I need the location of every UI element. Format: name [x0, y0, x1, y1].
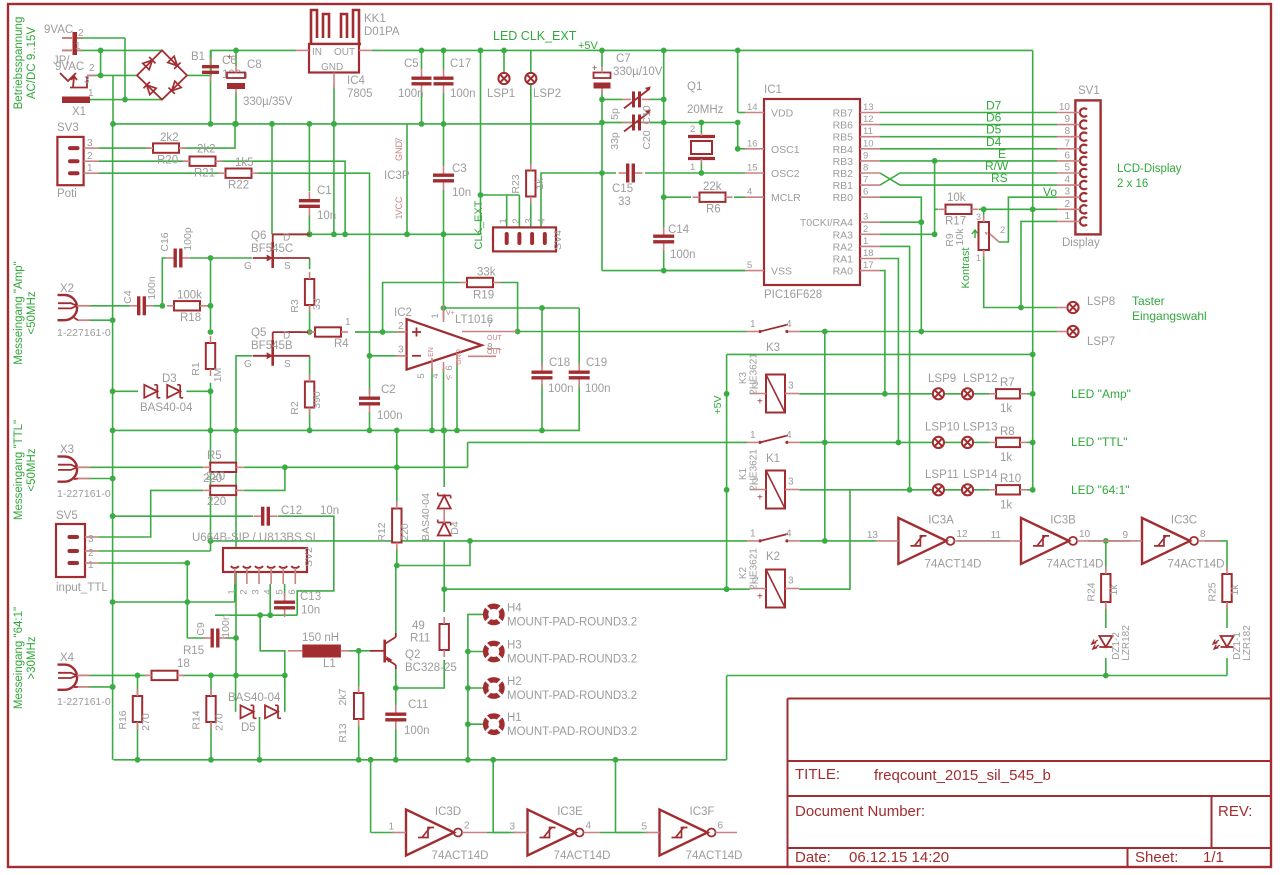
- svg-text:RB6: RB6: [833, 120, 854, 132]
- svg-text:LED CLK_EXT: LED CLK_EXT: [493, 29, 577, 43]
- svg-text:Messeingang "Amp": Messeingang "Amp": [13, 261, 25, 364]
- capacitor C9: [203, 629, 227, 648]
- svg-text:1/1: 1/1: [1203, 849, 1224, 866]
- wire vss row: [602, 270, 745, 272]
- svg-text:14: 14: [747, 102, 758, 113]
- svg-text:B1: B1: [191, 51, 205, 63]
- svg-text:4: 4: [263, 589, 274, 594]
- wire R19 feedback: [383, 283, 460, 333]
- wire K3 row to LSP7: [800, 331, 1057, 333]
- svg-text:IN: IN: [312, 47, 322, 58]
- svg-text:R22: R22: [228, 180, 249, 192]
- svg-text:R17: R17: [945, 216, 966, 228]
- svg-text:R19: R19: [473, 290, 494, 302]
- wire R5 net to K1 jog: [467, 442, 469, 467]
- wire crystal top pin: [700, 123, 702, 134]
- wire LSP12-R7: [974, 393, 990, 395]
- svg-text:270: 270: [140, 713, 152, 731]
- wire E net: [880, 160, 1057, 162]
- connector SV5 body: [56, 524, 85, 577]
- svg-text:RB1: RB1: [833, 180, 854, 192]
- svg-text:RB0: RB0: [833, 192, 854, 204]
- svg-text:LSP8: LSP8: [1087, 296, 1115, 308]
- svg-text:K3: K3: [738, 371, 749, 384]
- svg-text:R8: R8: [1000, 426, 1015, 438]
- svg-text:C12: C12: [281, 505, 302, 517]
- capacitor C3: [433, 166, 454, 190]
- svg-text:C19: C19: [586, 357, 607, 369]
- wire C11 col top: [395, 688, 397, 705]
- mount pad H4: [486, 606, 502, 622]
- wire C1 column bottom: [308, 215, 310, 234]
- wire SV2 pin1 col: [234, 584, 236, 602]
- wire X4 signal: [88, 674, 148, 676]
- wire RA1 column: [880, 259, 898, 443]
- svg-text:16: 16: [747, 138, 758, 149]
- svg-text:R6: R6: [706, 204, 721, 216]
- svg-text:5: 5: [641, 822, 647, 833]
- resistor R25: [1222, 567, 1231, 609]
- resistor R23: [526, 164, 535, 204]
- wire D5 net: [880, 136, 1057, 138]
- svg-text:MCLR: MCLR: [771, 192, 801, 204]
- wire SV4 pin4 to OSC2 net: [541, 173, 616, 227]
- wire q5 source col: [309, 356, 311, 381]
- capacitor C5: [412, 69, 432, 93]
- svg-text:2: 2: [863, 224, 868, 235]
- svg-text:11: 11: [991, 530, 1002, 541]
- mount pad H3: [486, 643, 502, 659]
- svg-text:+: +: [757, 592, 763, 603]
- wire RW crossing a: [880, 173, 1057, 185]
- wire K1 contact row right: [800, 441, 932, 443]
- svg-text:8: 8: [1200, 529, 1206, 540]
- wire SV3 pin2 to R21: [99, 160, 186, 162]
- bridge rectifier B1: [137, 50, 187, 99]
- solder pad LSP2: [525, 73, 536, 84]
- resistor R2: [305, 375, 314, 415]
- junction dots power entry: [98, 48, 128, 127]
- svg-text:Taster: Taster: [1132, 294, 1165, 308]
- capacitor C4: [130, 296, 154, 315]
- wire H col: [468, 614, 486, 759]
- svg-text:100n: 100n: [548, 383, 574, 395]
- svg-text:RA3: RA3: [833, 229, 854, 241]
- wire top +V rail left: [236, 49, 296, 51]
- wire LSP9-LSP12: [945, 393, 962, 395]
- svg-text:1: 1: [394, 214, 404, 219]
- wire LSP13-R8: [974, 441, 990, 443]
- wire led return row: [727, 675, 1227, 677]
- led DZ1-2: [1092, 636, 1113, 649]
- LSP7 stub: [1057, 331, 1066, 333]
- svg-text:D4: D4: [449, 521, 461, 535]
- wire IC4 gnd pin to gnd rail: [333, 87, 335, 124]
- svg-text:2: 2: [1000, 225, 1005, 236]
- resistor R15: [145, 671, 185, 680]
- wire H1 stub: [468, 723, 486, 725]
- svg-text:C16: C16: [159, 232, 171, 251]
- svg-text:IC3B: IC3B: [1050, 514, 1076, 526]
- svg-text:10n: 10n: [320, 505, 339, 517]
- svg-text:SV1: SV1: [1078, 85, 1100, 97]
- svg-text:13: 13: [863, 102, 874, 113]
- wire C13 top: [284, 584, 286, 596]
- diode D4 b: [438, 520, 451, 536]
- svg-text:1k: 1k: [1108, 584, 1120, 596]
- svg-text:K3: K3: [766, 342, 780, 354]
- svg-text:LED "Amp": LED "Amp": [1071, 387, 1131, 401]
- diode D5 a: [241, 705, 257, 718]
- svg-text:18: 18: [177, 658, 190, 670]
- svg-text:5p: 5p: [609, 108, 621, 120]
- svg-text:RA2: RA2: [833, 241, 854, 253]
- svg-text:D: D: [283, 330, 290, 341]
- svg-text:1: 1: [498, 218, 509, 223]
- svg-text:4: 4: [536, 218, 547, 223]
- wire K2 coil to K1 coil row: [799, 490, 850, 589]
- junction dots x3 net: [110, 464, 400, 481]
- svg-text:C1: C1: [317, 185, 332, 197]
- wire D3 row right: [187, 390, 211, 392]
- svg-text:2k7: 2k7: [337, 688, 349, 705]
- svg-text:3: 3: [788, 381, 794, 392]
- svg-text:10n: 10n: [452, 187, 471, 199]
- crystal Q1: [688, 133, 715, 163]
- wire C7 col down: [601, 99, 603, 270]
- svg-text:RB4: RB4: [833, 144, 854, 156]
- svg-text:C8: C8: [247, 59, 262, 71]
- svg-text:L1: L1: [323, 658, 336, 670]
- svg-text:KK1: KK1: [364, 13, 386, 25]
- wire SV4 pin2 drop: [518, 195, 520, 227]
- svg-text:C7: C7: [616, 53, 631, 65]
- svg-text:<50MHz: <50MHz: [26, 448, 38, 491]
- wire R1 bottom: [210, 383, 212, 392]
- svg-text:3: 3: [1064, 187, 1070, 198]
- solder pad LSP7: [1067, 326, 1078, 337]
- svg-text:Messeingang "64:1": Messeingang "64:1": [13, 607, 25, 709]
- resistor R17: [939, 205, 979, 214]
- svg-text:RB7: RB7: [833, 108, 854, 120]
- svg-text:3: 3: [87, 138, 93, 149]
- svg-text:9VAC: 9VAC: [55, 61, 84, 73]
- svg-text:1: 1: [976, 253, 981, 263]
- svg-text:+: +: [757, 493, 763, 504]
- svg-text:2: 2: [511, 218, 522, 223]
- wire bridge right to +rail: [187, 50, 236, 75]
- capacitor C6: [202, 58, 219, 82]
- svg-text:IC3P: IC3P: [384, 170, 410, 182]
- svg-text:V+: V+: [446, 310, 455, 317]
- wire LSP14-R10: [974, 489, 990, 491]
- wire X1 pin2 to corner: [80, 37, 125, 39]
- svg-text:R11: R11: [410, 633, 430, 645]
- svg-text:GND: GND: [394, 141, 404, 162]
- svg-text:LCD-Display: LCD-Display: [1117, 163, 1182, 175]
- svg-text:H1: H1: [507, 712, 522, 724]
- svg-text:33k: 33k: [477, 267, 496, 279]
- svg-text:G: G: [244, 261, 252, 272]
- svg-text:Q2: Q2: [405, 649, 420, 661]
- svg-text:6: 6: [863, 187, 868, 198]
- svg-text:R21: R21: [194, 168, 215, 180]
- wire jog to sv4 pins: [481, 194, 520, 196]
- capacitor C2: [359, 389, 380, 413]
- svg-text:BC328-25: BC328-25: [405, 662, 457, 674]
- svg-text:LED "TTL": LED "TTL": [1071, 435, 1128, 449]
- junction dots q2 area: [208, 428, 473, 763]
- wire D4 col top: [443, 430, 445, 487]
- svg-text:X1: X1: [72, 106, 86, 118]
- wire column 333.9: [333, 124, 335, 234]
- svg-text:100n: 100n: [398, 88, 424, 100]
- svg-text:K2: K2: [766, 551, 780, 563]
- svg-text:1k: 1k: [1000, 403, 1012, 415]
- svg-text:7: 7: [1064, 138, 1070, 149]
- svg-text:IC3D: IC3D: [435, 806, 461, 818]
- svg-text:390: 390: [311, 391, 323, 409]
- svg-text:330µ/10V: 330µ/10V: [613, 66, 663, 78]
- svg-text:OUT: OUT: [487, 335, 503, 342]
- resistor R19: [460, 278, 500, 287]
- resistor R21: [183, 157, 223, 166]
- wire gnd rail 430: [113, 429, 542, 431]
- wire L1 jog: [260, 615, 285, 675]
- connector SV1 body: [1075, 100, 1100, 234]
- wire top +5V rail right of IC4: [372, 49, 1033, 51]
- svg-text:74ACT14D: 74ACT14D: [1168, 558, 1225, 570]
- svg-text:input_TTL: input_TTL: [56, 582, 108, 594]
- svg-text:Display: Display: [1062, 237, 1100, 249]
- svg-text:33: 33: [618, 196, 631, 208]
- wire IC3B out to IC3C: [1088, 540, 1131, 542]
- wire C3 column bottom: [443, 190, 445, 234]
- wire osc1 column: [737, 123, 739, 149]
- wire R22 to comparator minus column: [255, 173, 370, 356]
- wire q6 drain column: [271, 124, 273, 234]
- svg-text:8: 8: [863, 163, 868, 174]
- junction dots bottom bus: [368, 757, 619, 763]
- IC4 pin stubs: [296, 50, 372, 88]
- svg-text:100k: 100k: [177, 290, 202, 302]
- svg-text:+: +: [227, 52, 232, 62]
- wire column 663 lower: [663, 248, 665, 271]
- wire H2 stub: [468, 687, 486, 689]
- svg-text:Eingangswahl: Eingangswahl: [1132, 309, 1207, 323]
- svg-text:LSP11: LSP11: [925, 469, 959, 481]
- svg-text:C18: C18: [549, 357, 570, 369]
- svg-text:OSC1: OSC1: [771, 144, 800, 156]
- svg-text:IC4: IC4: [347, 75, 366, 87]
- svg-text:13: 13: [867, 530, 879, 541]
- svg-text:150 nH: 150 nH: [302, 632, 339, 644]
- wire vdd column: [737, 50, 739, 112]
- wire LSP11-LSP14: [945, 489, 962, 491]
- wire bottom bus: [114, 759, 727, 761]
- connector SV2 pads: [231, 566, 299, 584]
- wire SV5 pin2 row: [99, 550, 211, 552]
- svg-text:+5V: +5V: [712, 396, 724, 415]
- wire +5 relay row: [727, 353, 1033, 355]
- connector X1 blade: [62, 97, 90, 104]
- svg-text:RA1: RA1: [833, 254, 854, 266]
- connector X4 pin stubs: [77, 675, 90, 687]
- wire IC3P power column: [406, 124, 408, 234]
- svg-text:1: 1: [690, 162, 695, 173]
- wire C5 column top: [421, 50, 423, 69]
- wire R21 to C2 node column: [219, 161, 345, 234]
- inverter IC3B: [999, 518, 1126, 564]
- wire C16 right to gate node: [190, 257, 252, 259]
- wire C4 to node: [153, 305, 162, 307]
- inverter IC3C: [1126, 518, 1220, 564]
- wire IC2 pin4 drop: [443, 368, 445, 430]
- svg-text:OUT: OUT: [487, 349, 503, 356]
- wire C12 right jog: [278, 516, 334, 615]
- inductor L1: [288, 645, 350, 658]
- wire row 615: [215, 614, 297, 616]
- svg-text:33p: 33p: [609, 132, 621, 150]
- wire K2 row to IC3A: [800, 540, 876, 542]
- connector X1 body bar: [73, 32, 78, 55]
- wire K1 coil row right: [799, 489, 932, 491]
- svg-text:X3: X3: [60, 444, 74, 456]
- wire pot top: [983, 209, 985, 222]
- junction dots gnd rail: [208, 121, 447, 127]
- svg-text:+: +: [592, 63, 597, 73]
- wire IC3D input col: [370, 760, 372, 833]
- relay K2 contact: [747, 534, 800, 543]
- svg-text:EN: EN: [428, 347, 435, 357]
- svg-text:1: 1: [1064, 211, 1070, 222]
- wire C20 right: [648, 122, 664, 124]
- svg-text:10: 10: [1079, 529, 1091, 540]
- wire X1 bar to bridge bottom: [90, 99, 162, 101]
- svg-text:MOUNT-PAD-ROUND3.2: MOUNT-PAD-ROUND3.2: [507, 654, 637, 666]
- wire R2 bottom: [309, 408, 311, 430]
- relay K3 contact: [747, 325, 800, 334]
- capacitor C19: [569, 363, 590, 387]
- svg-text:06.12.15 14:20: 06.12.15 14:20: [849, 849, 949, 866]
- wire jack node up to pin1 node: [100, 50, 102, 75]
- svg-text:LSP10: LSP10: [925, 422, 960, 434]
- svg-text:7: 7: [487, 319, 493, 330]
- svg-text:+5V: +5V: [578, 40, 599, 52]
- svg-text:BAS40-04: BAS40-04: [228, 692, 281, 704]
- wire C11 col bottom: [395, 729, 397, 760]
- connector SV4 pads: [507, 234, 545, 243]
- svg-text:4: 4: [786, 528, 792, 539]
- wire SV2 pin4 col: [269, 584, 271, 615]
- wire rail 234: [272, 233, 481, 235]
- svg-text:4: 4: [1064, 175, 1070, 186]
- resistor R7: [989, 389, 1027, 398]
- svg-text:Sheet:: Sheet:: [1135, 849, 1178, 866]
- wire q2 collector col: [396, 660, 444, 688]
- svg-text:10: 10: [1059, 102, 1071, 113]
- svg-text:RB3: RB3: [833, 156, 854, 168]
- svg-text:R10: R10: [1000, 473, 1021, 485]
- connector X3: [58, 457, 79, 482]
- svg-text:22k: 22k: [703, 181, 722, 193]
- svg-text:C2: C2: [381, 384, 396, 396]
- wire SV3 pin3 to R20: [99, 147, 150, 149]
- connector SV1 pads: [1057, 108, 1087, 225]
- resistor R14: [206, 689, 215, 729]
- connector X3 pin stubs: [77, 467, 90, 478]
- svg-text:RB5: RB5: [833, 132, 854, 144]
- svg-text:Document Number:: Document Number:: [795, 803, 925, 820]
- svg-text:U664B-SIP / U813BS SI: U664B-SIP / U813BS SI: [192, 532, 316, 544]
- svg-text:20MHz: 20MHz: [687, 104, 724, 116]
- svg-text:1k: 1k: [534, 178, 546, 190]
- svg-text:74ACT14D: 74ACT14D: [432, 850, 489, 862]
- wire C18 column top: [541, 308, 543, 366]
- svg-text:LSP13: LSP13: [963, 422, 998, 434]
- svg-text:OUT: OUT: [334, 47, 355, 58]
- inverter IC3A: [876, 518, 999, 564]
- svg-text:SV5: SV5: [56, 510, 78, 522]
- wire SV3 pin1 to R22: [99, 172, 222, 174]
- wire input ttl row: [113, 601, 235, 603]
- junction dots x4: [110, 673, 263, 763]
- svg-text:V-: V-: [446, 375, 453, 382]
- wire RS crossing b: [880, 173, 1057, 185]
- capacitor C15: [619, 164, 643, 183]
- capacitor C13: [274, 593, 295, 617]
- svg-text:1: 1: [87, 163, 93, 174]
- solder pad LSP9: [933, 388, 944, 399]
- wire R5 right long: [244, 466, 468, 468]
- svg-text:4: 4: [747, 187, 752, 198]
- op-amp IC2 LT1016 triangle: [407, 319, 482, 370]
- wire X4 shield: [88, 686, 113, 688]
- svg-text:100p: 100p: [182, 227, 194, 251]
- svg-text:10k: 10k: [947, 192, 966, 204]
- wire D5 left col: [235, 675, 237, 711]
- wire trimmer rail y=122.5: [602, 122, 738, 124]
- svg-text:2HE3621: 2HE3621: [749, 449, 760, 491]
- wire C6 column: [210, 50, 212, 124]
- trimmer capacitor C10: [622, 86, 651, 108]
- svg-text:R18: R18: [180, 312, 201, 324]
- svg-text:11: 11: [863, 126, 873, 137]
- svg-text:100n: 100n: [146, 276, 158, 300]
- svg-text:2HE3621: 2HE3621: [749, 548, 760, 590]
- solder pad LSP13: [962, 437, 973, 448]
- svg-text:1: 1: [750, 528, 756, 539]
- wire plus input: [355, 331, 404, 333]
- junction dots h pads: [465, 649, 471, 763]
- svg-text:IC3E: IC3E: [557, 806, 583, 818]
- wire RA3 stub: [880, 233, 935, 235]
- svg-text:GND: GND: [321, 62, 343, 73]
- wire IC3E in: [493, 832, 516, 834]
- wire C13 bottom: [284, 614, 286, 615]
- wire minus input: [370, 355, 405, 357]
- svg-text:100n: 100n: [220, 614, 232, 638]
- svg-text:2k2: 2k2: [197, 144, 216, 156]
- svg-text:1: 1: [388, 822, 394, 833]
- connector SV5 pads: [70, 537, 78, 563]
- heatsink KK1: [309, 10, 361, 44]
- svg-text:10k: 10k: [954, 228, 966, 246]
- connector SV2 body: [223, 548, 307, 572]
- junction dots led chain: [1103, 538, 1109, 678]
- wire IC3D in: [371, 832, 394, 834]
- wire R3 bottom: [309, 295, 311, 332]
